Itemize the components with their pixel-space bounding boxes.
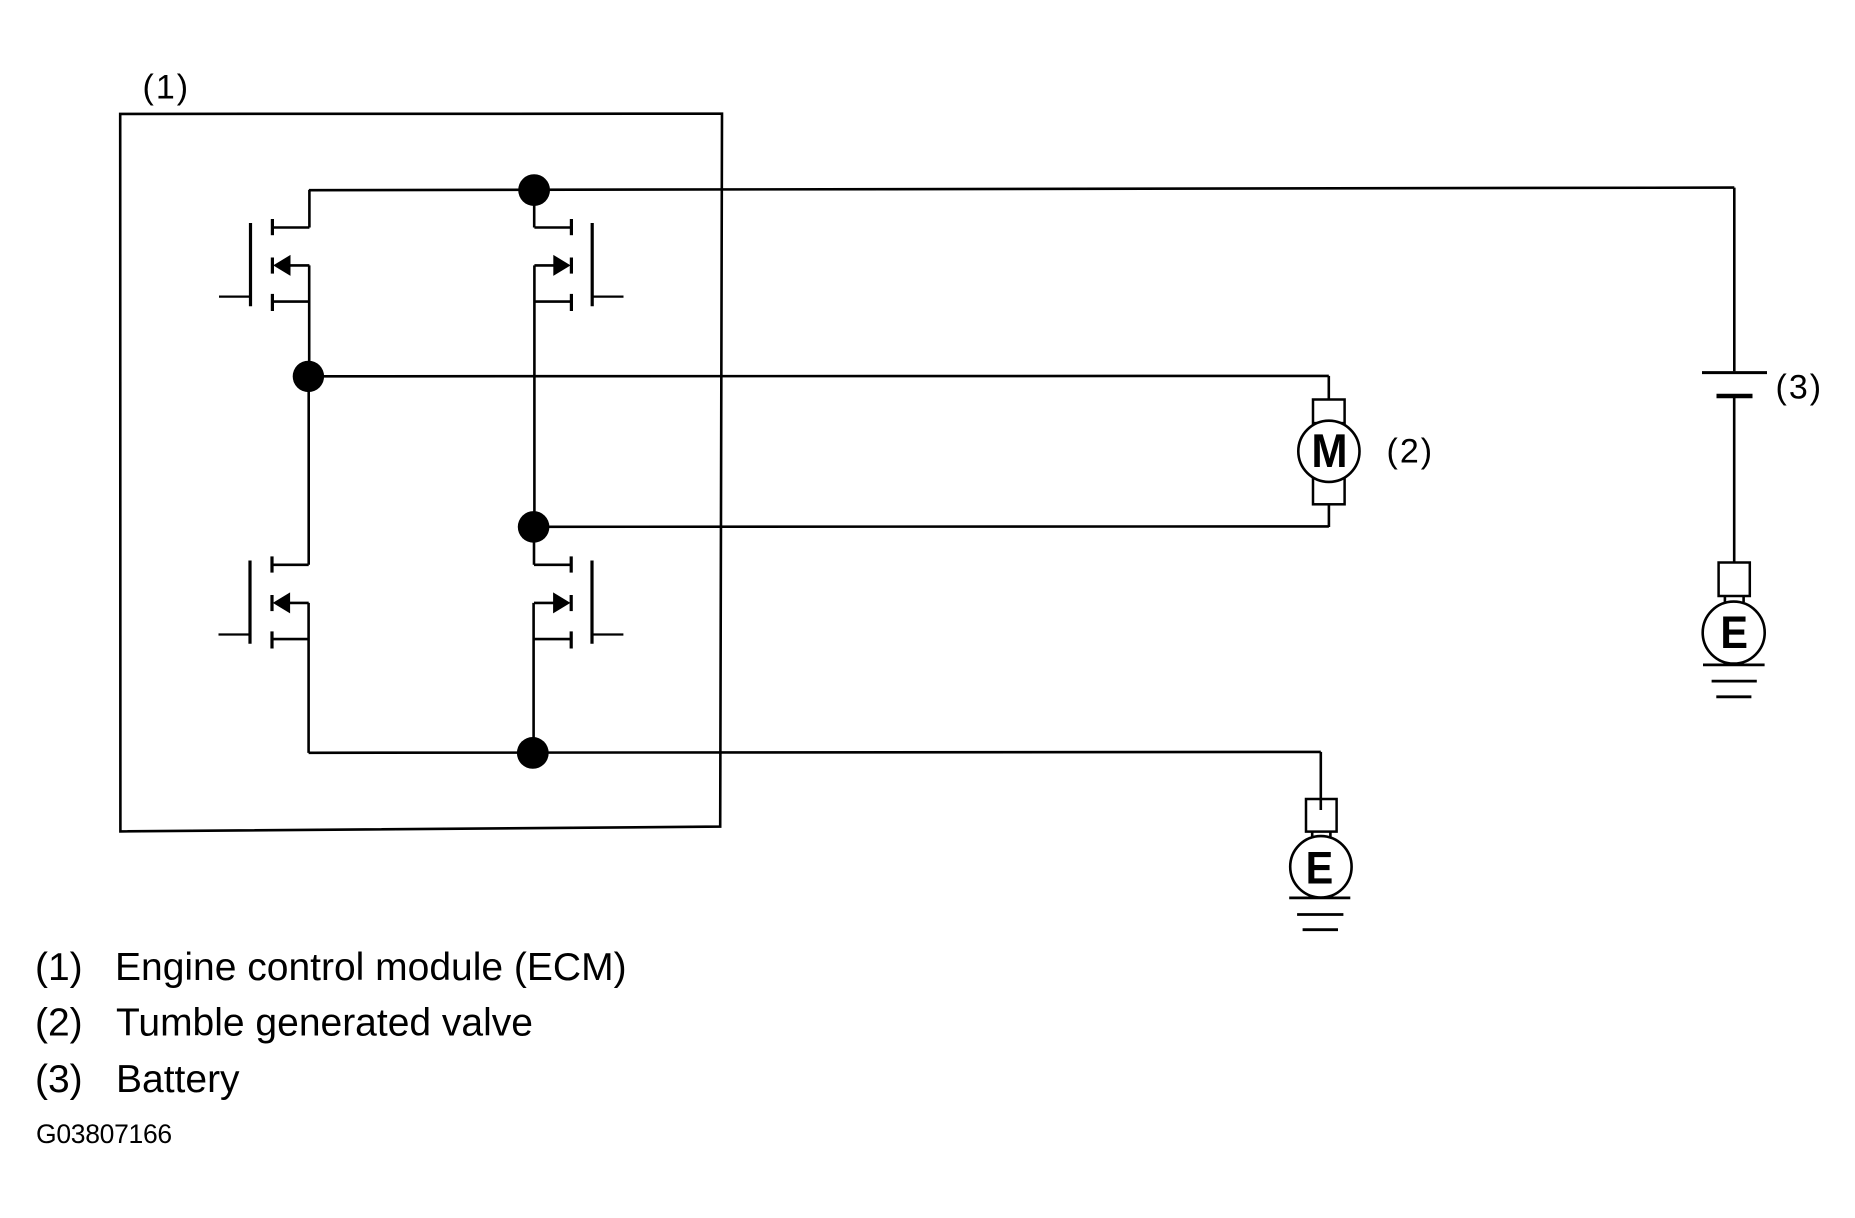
node C junction dot bbox=[518, 511, 550, 543]
ground E2 neck bbox=[1312, 832, 1330, 837]
ground E2 circle bbox=[1290, 836, 1351, 897]
wire: node A down to Q3 drain bbox=[307, 376, 310, 564]
wire: top supply rail from Q1 drain to battery bbox=[309, 188, 1734, 191]
wire: bottom rail drop to ground E2 bbox=[1320, 752, 1323, 810]
wire: bottom rail to ground E2 bbox=[309, 751, 1321, 754]
svg-text:(2): (2) bbox=[35, 1002, 83, 1045]
battery B1 negative plate bbox=[1717, 394, 1753, 399]
transistor Q4 (bottom-right MOSFET) bbox=[534, 556, 623, 648]
node D junction dot bbox=[517, 737, 549, 769]
ECM box U1 bbox=[120, 114, 722, 832]
wire: Q1 source down to node A bbox=[308, 265, 311, 376]
wire: Q1 drain riser bbox=[308, 190, 311, 228]
svg-text:E: E bbox=[1720, 609, 1748, 659]
wire: motor top drop bbox=[1328, 376, 1331, 400]
wire: Q4 source down to bottom rail bbox=[532, 603, 535, 753]
ground E1 connector square bbox=[1719, 563, 1750, 597]
svg-text:E: E bbox=[1306, 844, 1334, 894]
wire: node A to motor top terminal bbox=[308, 375, 1328, 378]
wire: Q3 source down to bottom rail bbox=[307, 603, 310, 753]
svg-text:M: M bbox=[1311, 424, 1347, 477]
node: top junction dot bbox=[518, 174, 550, 206]
svg-text:G03807166: G03807166 bbox=[36, 1119, 172, 1149]
wire: battery to ground E1 bbox=[1733, 396, 1736, 563]
wire: dot1 down to Q2 drain bbox=[533, 190, 536, 227]
svg-text:Battery: Battery bbox=[116, 1058, 240, 1101]
ground E2 connector square bbox=[1306, 799, 1337, 832]
motor M1 terminal block bottom bbox=[1313, 478, 1345, 504]
transistor Q3 (bottom-left MOSFET) bbox=[219, 556, 309, 648]
node A junction dot bbox=[293, 361, 324, 392]
svg-text:(1): (1) bbox=[143, 69, 191, 107]
motor M1 terminal block top bbox=[1313, 400, 1345, 424]
svg-text:(3): (3) bbox=[35, 1058, 83, 1101]
wire: motor bottom drop bbox=[1328, 504, 1331, 527]
ground E1 neck bbox=[1725, 596, 1744, 602]
ground E1 circle bbox=[1703, 602, 1765, 664]
ground E1 earth lines bbox=[1703, 664, 1765, 667]
svg-text:(1): (1) bbox=[35, 946, 83, 989]
battery B1 positive plate bbox=[1702, 371, 1767, 374]
wire: node C to motor bottom terminal bbox=[534, 525, 1329, 528]
svg-text:(2): (2) bbox=[1387, 433, 1435, 471]
svg-text:Engine control module (ECM): Engine control module (ECM) bbox=[115, 946, 627, 989]
wire: battery top drop bbox=[1733, 188, 1736, 372]
svg-text:(3): (3) bbox=[1776, 369, 1824, 407]
ground E2 earth lines bbox=[1289, 897, 1350, 900]
svg-text:Tumble generated valve: Tumble generated valve bbox=[116, 1002, 533, 1045]
wire: node C down to Q4 drain bbox=[533, 527, 536, 565]
transistor Q2 (top-right MOSFET) bbox=[534, 219, 623, 311]
wire: Q2 source down to node C bbox=[533, 265, 536, 527]
transistor Q1 (top-left MOSFET) bbox=[219, 219, 309, 311]
motor M1 body bbox=[1298, 421, 1359, 482]
